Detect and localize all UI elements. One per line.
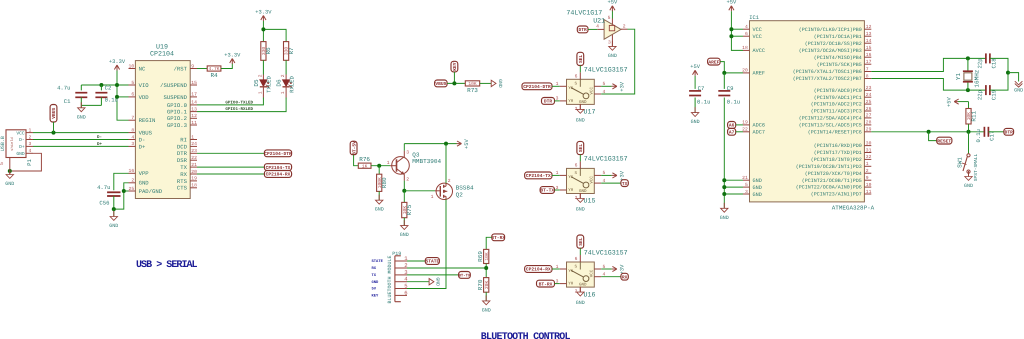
svg-text:SEL: SEL xyxy=(578,144,584,153)
svg-text:(PCINT9/ADC1)PC1: (PCINT9/ADC1)PC1 xyxy=(814,95,862,101)
svg-text:SEL: SEL xyxy=(578,237,584,246)
resistor R6 330 xyxy=(261,42,272,61)
svg-text:(PCINT2/OC1B/SS)PB2: (PCINT2/OC1B/SS)PB2 xyxy=(805,41,862,47)
svg-text:D+: D+ xyxy=(97,142,103,147)
svg-text:0.1u: 0.1u xyxy=(697,98,710,105)
svg-text:GND: GND xyxy=(753,185,762,191)
net flag BT-TX at module xyxy=(459,272,471,279)
svg-text:(PCINT17/TXD)PD1: (PCINT17/TXD)PD1 xyxy=(814,150,862,156)
net flag A7 at ADC7 xyxy=(728,128,743,135)
crystal Y1 16MHz xyxy=(955,58,980,90)
svg-text:20: 20 xyxy=(742,68,748,74)
resistor R70 20K xyxy=(477,278,490,293)
svg-text:GND: GND xyxy=(5,181,14,187)
svg-text:/SUSPEND: /SUSPEND xyxy=(160,82,187,89)
svg-text:0.1u: 0.1u xyxy=(727,98,740,105)
svg-text:D6: D6 xyxy=(276,79,283,87)
svg-text:30: 30 xyxy=(866,140,872,146)
svg-text:15: 15 xyxy=(866,45,872,51)
svg-text:12: 12 xyxy=(866,24,872,30)
transistor Q3 MMBT3904 NPN xyxy=(387,150,442,183)
net flag DTR at C17 xyxy=(1004,128,1014,135)
net flag VBUS xyxy=(50,105,57,133)
svg-text:2: 2 xyxy=(29,134,32,140)
wire GPIO0-TXLED net xyxy=(197,99,263,105)
wire BT STATE pin 1 xyxy=(407,260,425,262)
power +5V above U21 xyxy=(608,0,618,11)
wire D- to U19 pin 4 xyxy=(33,135,129,140)
svg-text:74LVC1G3157: 74LVC1G3157 xyxy=(584,248,628,256)
capacitor C7 0.1u xyxy=(689,85,710,105)
svg-text:1: 1 xyxy=(280,91,286,94)
svg-text:5: 5 xyxy=(0,162,5,165)
svg-text:P19: P19 xyxy=(392,251,401,257)
svg-text:24: 24 xyxy=(191,141,197,147)
svg-text:27: 27 xyxy=(866,113,872,119)
svg-text:BSS84: BSS84 xyxy=(456,185,474,192)
power +5V above IC1 xyxy=(727,0,743,50)
svg-text:GND: GND xyxy=(576,300,585,306)
svg-text:CP2104-DTR: CP2104-DTR xyxy=(264,151,292,157)
wire R76 to Q3 base xyxy=(371,165,390,167)
svg-text:Q2: Q2 xyxy=(456,192,464,199)
svg-text:1: 1 xyxy=(29,127,32,133)
svg-text:4: 4 xyxy=(29,148,32,154)
svg-text:2: 2 xyxy=(406,177,409,183)
net flag select at U17 pin 6 xyxy=(577,52,584,72)
svg-text:VCC: VCC xyxy=(589,87,594,95)
svg-text:5: 5 xyxy=(131,80,134,86)
svg-text:SEL: SEL xyxy=(578,55,584,64)
net flag select at U15 pin 6 xyxy=(577,141,584,161)
svg-text:3: 3 xyxy=(745,189,748,195)
node KEY junction xyxy=(452,81,456,85)
svg-text:12: 12 xyxy=(191,113,197,119)
svg-text:(PCINT11/ADC3)PC3: (PCINT11/ADC3)PC3 xyxy=(811,109,862,115)
svg-text:/RST: /RST xyxy=(174,65,188,72)
svg-text:(PCINT12/SDA/ADC4)PC4: (PCINT12/SDA/ADC4)PC4 xyxy=(799,116,862,122)
wire emitter junction to Q2 gate xyxy=(404,190,435,192)
svg-text:VCC: VCC xyxy=(753,34,762,40)
svg-text:10: 10 xyxy=(866,182,872,188)
wire R69 to junction xyxy=(485,264,487,278)
ground below C7 xyxy=(691,98,700,126)
net flag RESET xyxy=(929,132,952,145)
svg-text:BT-RX: BT-RX xyxy=(539,281,553,287)
svg-text:9: 9 xyxy=(866,175,869,181)
svg-text:3: 3 xyxy=(608,40,611,46)
resistor R69 10K xyxy=(477,249,490,263)
svg-text:BLUETOOTH MODULE: BLUETOOTH MODULE xyxy=(387,255,393,303)
wire R4 to +3.3V xyxy=(221,64,232,69)
node ground junctions xyxy=(722,178,726,196)
capacitor C19 22p xyxy=(976,85,997,100)
svg-text:Y0: Y0 xyxy=(568,188,574,193)
svg-text:R11: R11 xyxy=(970,110,977,121)
svg-text:25: 25 xyxy=(129,186,135,192)
svg-text:8: 8 xyxy=(866,73,869,79)
svg-text:R75: R75 xyxy=(406,204,413,215)
op-amp U17 74LVC1G3157 analog switch xyxy=(556,66,628,116)
op-amp IC1 ATMEGA328P-A microcontroller xyxy=(742,15,875,211)
power +3V at U15 pin 5 xyxy=(601,170,625,180)
net flag VBUS at R73 xyxy=(435,80,448,87)
svg-text:21: 21 xyxy=(191,162,197,168)
svg-text:D+: D+ xyxy=(139,143,146,150)
svg-text:R73: R73 xyxy=(467,87,478,94)
svg-text:Y0: Y0 xyxy=(568,282,574,287)
node junctions on +3.3V rail xyxy=(99,83,119,99)
svg-text:GND: GND xyxy=(1014,88,1023,94)
svg-text:NC: NC xyxy=(139,65,146,72)
svg-text:(PCINT20/XCK/T0)PD4: (PCINT20/XCK/T0)PD4 xyxy=(805,171,862,177)
svg-text:TX: TX xyxy=(372,273,377,278)
svg-text:CP2104-TX: CP2104-TX xyxy=(266,165,291,171)
node C56 ground junctions xyxy=(112,189,126,211)
svg-text:26: 26 xyxy=(866,106,872,112)
svg-text:D5: D5 xyxy=(253,79,260,87)
wire U16 pin 1 xyxy=(552,268,560,270)
ground below R80 xyxy=(375,191,384,212)
svg-text:(PCINT23/AIN1)PD7: (PCINT23/AIN1)PD7 xyxy=(811,192,862,198)
svg-text:20: 20 xyxy=(191,169,197,175)
svg-text:+3V: +3V xyxy=(619,81,625,91)
wire R11 to reset row xyxy=(968,124,970,132)
ground below U17 xyxy=(576,104,585,124)
wire AREF row xyxy=(724,72,743,74)
wire BT TX pin 3 xyxy=(407,274,459,276)
svg-text:74LVC1G17: 74LVC1G17 xyxy=(566,9,602,17)
wire Q2 source to rail xyxy=(445,144,447,184)
wire Q2 drain to BT module 5V pin xyxy=(407,199,446,288)
svg-text:U21: U21 xyxy=(593,16,605,24)
svg-text:GND: GND xyxy=(16,151,25,157)
wire cap bottoms to ground xyxy=(81,104,101,106)
svg-text:+5V: +5V xyxy=(727,0,737,6)
svg-text:C56: C56 xyxy=(99,200,109,207)
wire emitter to R75 xyxy=(403,191,405,203)
resistor R4 4.7K xyxy=(207,66,221,79)
net flag KEY xyxy=(451,61,458,83)
svg-text:GND: GND xyxy=(691,119,700,125)
net flag on U17 pin 3 xyxy=(542,98,555,105)
wire GPIO1-RXLED net xyxy=(197,99,286,112)
net flag AREF xyxy=(708,58,725,73)
svg-text:2: 2 xyxy=(131,178,134,184)
capacitor C9 0.1u xyxy=(718,73,740,105)
power +3.3V rail at U19 xyxy=(109,59,129,120)
svg-text:2: 2 xyxy=(866,168,869,174)
svg-text:4: 4 xyxy=(131,134,134,140)
svg-text:13: 13 xyxy=(191,106,197,112)
svg-text:GND: GND xyxy=(576,207,585,213)
svg-text:GND: GND xyxy=(139,180,150,187)
resistor R7 330 xyxy=(284,42,295,61)
svg-text:RXLED: RXLED xyxy=(288,75,295,92)
wire C9 to IC1 grounds xyxy=(724,98,743,209)
svg-text:KEY: KEY xyxy=(452,62,458,71)
svg-text:+5V: +5V xyxy=(608,0,618,6)
svg-text:5: 5 xyxy=(745,182,748,188)
svg-text:U17: U17 xyxy=(584,108,596,116)
svg-text:GND: GND xyxy=(497,79,503,88)
svg-text:22: 22 xyxy=(742,127,748,133)
svg-text:22p: 22p xyxy=(976,90,983,100)
net flag BT-RX above R69 xyxy=(486,234,505,250)
svg-text:18: 18 xyxy=(191,183,197,189)
wire Q3 collector to +5V rail xyxy=(403,144,405,151)
svg-text:5V: 5V xyxy=(372,287,377,292)
svg-text:1: 1 xyxy=(191,134,194,140)
wire U17 pin 1 xyxy=(552,85,560,87)
svg-text:17: 17 xyxy=(866,59,872,65)
svg-text:6: 6 xyxy=(404,289,407,296)
svg-text:DTR: DTR xyxy=(579,27,588,33)
wire U15 pin 3 xyxy=(555,189,560,191)
svg-text:GND: GND xyxy=(375,207,384,213)
svg-text:SPST-SMALL: SPST-SMALL xyxy=(973,153,979,181)
wire to chevron ground xyxy=(1008,73,1019,82)
net flag on U16 pin 1 xyxy=(525,266,552,273)
svg-text:DTR: DTR xyxy=(544,99,553,105)
net flag RX on U16 pin 4 xyxy=(621,273,628,280)
wire RESET net xyxy=(871,131,984,133)
svg-text:19: 19 xyxy=(191,176,197,182)
svg-text:C18: C18 xyxy=(991,58,998,68)
svg-text:GND: GND xyxy=(372,280,380,285)
svg-text:U15: U15 xyxy=(584,197,596,205)
wire VBUS to R73 xyxy=(447,82,465,84)
wire base junction to R80 xyxy=(378,166,380,175)
ground below U15 xyxy=(576,193,585,213)
net flag A6 at ADC6 xyxy=(728,122,743,129)
svg-text:0.1u: 0.1u xyxy=(975,129,982,142)
svg-text:31: 31 xyxy=(866,147,872,153)
svg-text:(PCINT6/XTAL1/TOSC1)PB6: (PCINT6/XTAL1/TOSC1)PB6 xyxy=(793,69,862,75)
wire D+ to U19 pin 3 xyxy=(33,142,129,147)
svg-text:BT-5V: BT-5V xyxy=(351,141,357,155)
wire XTAL1 to crystal xyxy=(871,58,986,71)
svg-text:D+: D+ xyxy=(19,144,25,150)
svg-text:9: 9 xyxy=(191,63,194,69)
capacitor C2 0.1u xyxy=(95,85,118,106)
svg-text:2: 2 xyxy=(623,23,626,29)
node rail junction at Q2 source xyxy=(444,142,448,146)
node AREF junction xyxy=(722,71,726,75)
svg-text:20K: 20K xyxy=(484,281,490,290)
wire /RST to R4 xyxy=(197,68,207,70)
svg-text:CP2104: CP2104 xyxy=(150,50,174,58)
node VCC junctions xyxy=(729,27,733,38)
svg-text:(PCINT0/CLK0/ICP1)PB0: (PCINT0/CLK0/ICP1)PB0 xyxy=(799,27,862,33)
svg-text:1: 1 xyxy=(257,91,263,94)
svg-text:2: 2 xyxy=(280,74,286,77)
svg-text:Y0: Y0 xyxy=(568,99,574,104)
net flag on U15 pin 1 xyxy=(525,172,552,179)
svg-text:4.7u: 4.7u xyxy=(97,184,110,191)
svg-text:GND: GND xyxy=(400,232,409,238)
svg-text:23: 23 xyxy=(191,148,197,154)
resistor R76 1K xyxy=(358,156,371,169)
svg-text:2: 2 xyxy=(257,74,263,77)
wire VIO row xyxy=(81,84,128,86)
ground below C56 xyxy=(109,209,118,229)
svg-text:GND: GND xyxy=(435,277,441,286)
svg-text:STATE: STATE xyxy=(425,259,439,265)
svg-text:USB > SERIAL: USB > SERIAL xyxy=(136,260,198,271)
svg-text:C19: C19 xyxy=(991,90,998,100)
svg-text:GPIO1-RXLED: GPIO1-RXLED xyxy=(225,107,253,112)
svg-text:RX: RX xyxy=(372,266,377,271)
svg-text:AVCC: AVCC xyxy=(753,48,765,54)
svg-text:BT-TX: BT-TX xyxy=(459,274,471,279)
svg-text:GPIO.3: GPIO.3 xyxy=(167,122,187,129)
svg-text:VBUS: VBUS xyxy=(51,107,57,118)
svg-text:STATE: STATE xyxy=(372,259,384,264)
svg-text:AREF: AREF xyxy=(753,71,765,77)
svg-text:+3.3V: +3.3V xyxy=(255,9,272,15)
svg-text:R69: R69 xyxy=(477,251,484,262)
svg-text:5: 5 xyxy=(608,15,611,21)
wire R73 to ground xyxy=(480,82,492,84)
svg-text:AREF: AREF xyxy=(708,59,719,65)
svg-text:3: 3 xyxy=(29,141,32,147)
ground below C1 C2 xyxy=(77,102,86,120)
svg-text:TXLED: TXLED xyxy=(266,75,273,92)
svg-text:(PCINT1/OC1A)PB1: (PCINT1/OC1A)PB1 xyxy=(814,34,862,40)
transistor Q2 BSS84 P-MOSFET xyxy=(431,178,474,200)
svg-text:(PCINT4/MISO)PB4: (PCINT4/MISO)PB4 xyxy=(814,55,862,61)
svg-text:22: 22 xyxy=(191,155,197,161)
svg-text:6: 6 xyxy=(575,256,578,262)
svg-text:28: 28 xyxy=(866,120,872,126)
op-amp U16 74LVC1G3157 analog switch xyxy=(556,248,628,298)
svg-text:R6: R6 xyxy=(265,47,272,55)
svg-text:1: 1 xyxy=(387,160,390,166)
svg-text:(PCINT21/OC0B/T1)PD5: (PCINT21/OC0B/T1)PD5 xyxy=(802,178,862,184)
svg-text:18: 18 xyxy=(742,45,748,51)
wire VDD row xyxy=(117,96,129,98)
svg-text:11: 11 xyxy=(866,189,872,195)
svg-text:VBUS: VBUS xyxy=(435,81,446,87)
resistor R73 10K xyxy=(465,81,479,94)
wire BT RX pin 2 to divider xyxy=(407,267,486,269)
svg-text:VCC: VCC xyxy=(589,269,594,277)
svg-text:R4: R4 xyxy=(210,72,218,79)
ground below SW1 xyxy=(964,171,973,189)
svg-text:16: 16 xyxy=(129,168,135,174)
net flag STATE xyxy=(425,258,439,265)
net flag DTR at U21 input xyxy=(577,26,588,33)
op-amp U19 CP2104 USB-serial IC xyxy=(129,42,198,198)
svg-text:3: 3 xyxy=(406,150,409,156)
node emitter junction xyxy=(402,189,406,193)
power +5V at R11 xyxy=(947,96,969,108)
net flag select at U16 pin 6 xyxy=(577,235,584,255)
wire caps to ground rail xyxy=(990,58,1008,90)
svg-text:D-: D- xyxy=(97,135,102,140)
svg-text:U16: U16 xyxy=(584,290,596,298)
svg-text:(PCINT8/ADC0)PC0: (PCINT8/ADC0)PC0 xyxy=(814,88,862,94)
svg-text:REGIN: REGIN xyxy=(139,117,156,124)
svg-text:GND: GND xyxy=(720,215,729,221)
svg-text:3: 3 xyxy=(131,141,134,147)
svg-text:GND: GND xyxy=(753,178,762,184)
svg-text:(PCINT18/INT0)PD2: (PCINT18/INT0)PD2 xyxy=(811,157,862,163)
svg-text:1K: 1K xyxy=(362,163,368,169)
svg-text:GND: GND xyxy=(109,223,118,229)
ground below R70 xyxy=(482,292,491,313)
power +3V at U16 pin 5 xyxy=(601,264,625,274)
svg-text:R7: R7 xyxy=(288,47,295,55)
node ground rail junction xyxy=(1006,71,1010,75)
wire CP2104-TX xyxy=(197,166,264,168)
wire CP2104-DTR xyxy=(197,152,264,154)
svg-text:CP2104-RX: CP2104-RX xyxy=(526,267,551,273)
svg-text:CP2104-RX: CP2104-RX xyxy=(266,172,291,178)
svg-text:24: 24 xyxy=(866,92,872,98)
svg-text:+5V: +5V xyxy=(947,96,953,106)
wire U17 pin 3 xyxy=(555,100,560,102)
svg-text:11: 11 xyxy=(191,120,197,126)
svg-text:SUSPEND: SUSPEND xyxy=(164,94,188,101)
svg-text:8: 8 xyxy=(131,127,134,133)
svg-text:6: 6 xyxy=(575,73,578,79)
svg-text:32: 32 xyxy=(866,154,872,160)
svg-text:(PCINT13/SCL/ADC5)PC5: (PCINT13/SCL/ADC5)PC5 xyxy=(799,123,862,129)
ground below U16 xyxy=(576,287,585,307)
ground right of R73 xyxy=(491,79,503,88)
wire U15 pin 4 xyxy=(601,182,621,184)
svg-text:BT-TX: BT-TX xyxy=(540,188,554,194)
power +3.3V at R4 xyxy=(224,52,241,64)
svg-text:CP2104-DTR: CP2104-DTR xyxy=(523,84,551,90)
wire VCC rows xyxy=(731,29,743,36)
svg-text:RX: RX xyxy=(622,274,628,280)
wire LED supply branch xyxy=(263,29,286,41)
connector P19 BLUETOOTH MODULE xyxy=(372,251,409,303)
svg-text:(PCINT16/RXD)PD0: (PCINT16/RXD)PD0 xyxy=(814,143,862,149)
svg-text:29: 29 xyxy=(866,127,872,133)
svg-text:13: 13 xyxy=(866,31,872,37)
ground at BT pin 4 xyxy=(407,277,441,286)
svg-text:25: 25 xyxy=(866,99,872,105)
wire Q3 emitter down xyxy=(403,181,405,191)
node reset junctions xyxy=(927,130,971,134)
svg-text:MMBT3904: MMBT3904 xyxy=(412,158,441,165)
svg-text:VIO: VIO xyxy=(139,82,150,89)
net flag on U17 pin 1 xyxy=(522,83,552,90)
svg-text:14: 14 xyxy=(866,38,872,44)
svg-text:(PCINT14/RESET)PC6: (PCINT14/RESET)PC6 xyxy=(808,129,862,135)
svg-text:15: 15 xyxy=(191,80,197,86)
wire CP2104-RX xyxy=(197,173,264,175)
node LED rail junction xyxy=(261,27,265,31)
wire U21 input xyxy=(588,28,597,30)
svg-text:14: 14 xyxy=(191,100,197,106)
net flag CP2104-DTR xyxy=(264,150,292,157)
svg-text:CTS: CTS xyxy=(177,185,188,192)
capacitor C18 22p xyxy=(976,53,997,68)
svg-text:(PCINT10/ADC2)PC2: (PCINT10/ADC2)PC2 xyxy=(811,102,862,108)
svg-text:GND: GND xyxy=(482,307,491,313)
svg-text:CP2104-TX: CP2104-TX xyxy=(526,173,551,179)
op-amp U15 74LVC1G3157 analog switch xyxy=(556,155,628,205)
svg-text:VCC: VCC xyxy=(16,130,25,136)
svg-text:ADC7: ADC7 xyxy=(753,130,765,136)
power +5V arrow right xyxy=(457,138,471,148)
resistor R80 100K xyxy=(377,174,388,191)
